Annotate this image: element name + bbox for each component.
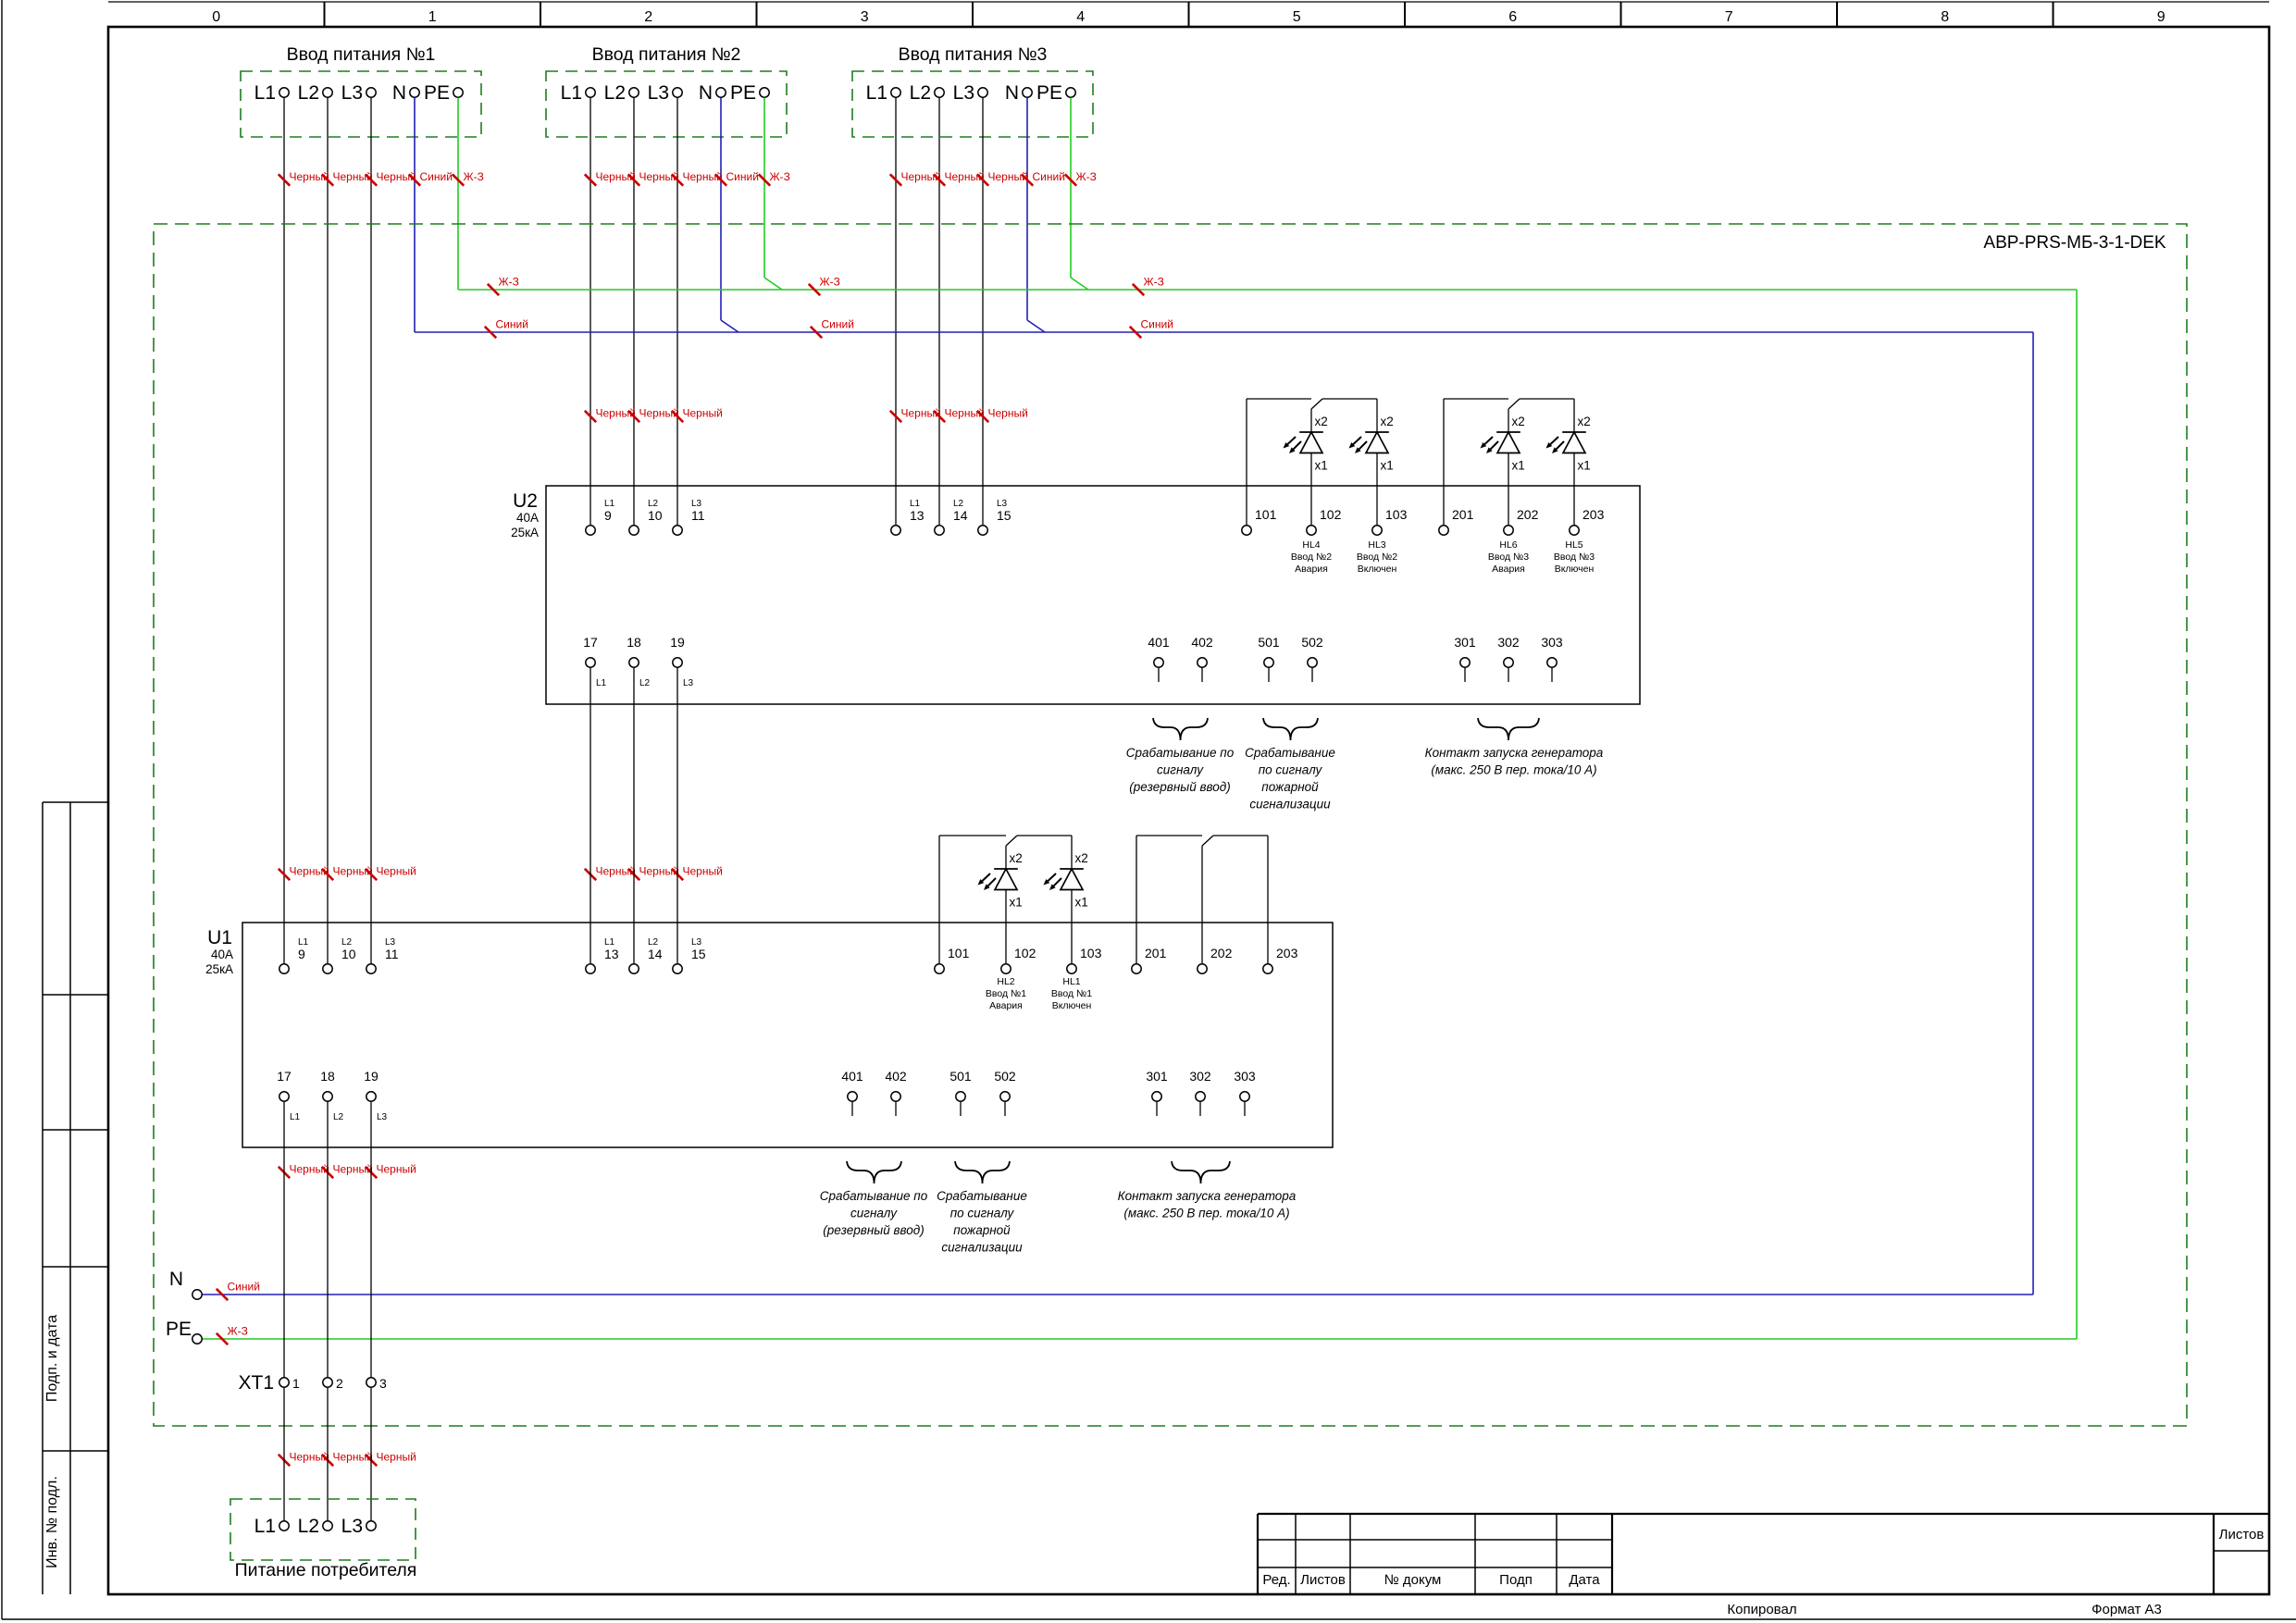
svg-text:14: 14 bbox=[648, 947, 663, 961]
U1 pin 19 (L3) output bbox=[364, 1069, 387, 1122]
svg-text:ХТ1: ХТ1 bbox=[238, 1372, 274, 1394]
brace U1 501-502 bbox=[955, 1161, 1010, 1183]
svg-text:x1: x1 bbox=[1512, 459, 1525, 473]
U2 pin 301 bbox=[1454, 635, 1476, 682]
svg-text:L2: L2 bbox=[298, 82, 319, 104]
HL1 caption bbox=[1051, 976, 1092, 1011]
wire colour labels row C (U1 inputs) bbox=[279, 865, 723, 881]
svg-text:Ввод №3: Ввод №3 bbox=[1554, 551, 1595, 563]
svg-text:4: 4 bbox=[1076, 9, 1085, 25]
wire x1 HL5 → pin 203 bbox=[1573, 453, 1575, 525]
svg-text:L2: L2 bbox=[333, 1112, 344, 1122]
svg-text:1: 1 bbox=[428, 9, 437, 25]
PE bus right vertical (green) bbox=[2076, 290, 2078, 1339]
svg-text:L3: L3 bbox=[953, 82, 974, 104]
svg-text:L3: L3 bbox=[341, 82, 363, 104]
svg-text:(резервный ввод): (резервный ввод) bbox=[1129, 780, 1230, 794]
wire N Ввод№1 drop bbox=[414, 98, 416, 333]
svg-text:Формат А3: Формат А3 bbox=[2091, 1602, 2162, 1617]
svg-text:501: 501 bbox=[1258, 635, 1280, 650]
wire colour labels row D (U1 outputs) bbox=[279, 1163, 416, 1179]
svg-text:18: 18 bbox=[320, 1069, 335, 1084]
svg-text:L1: L1 bbox=[254, 82, 276, 104]
svg-text:14: 14 bbox=[953, 508, 968, 523]
svg-text:18: 18 bbox=[627, 635, 641, 650]
wire L2 Ввод№1 → U1 pin 10 bbox=[327, 98, 329, 964]
U1 pin 201 bbox=[1132, 946, 1167, 973]
svg-text:13: 13 bbox=[910, 508, 925, 523]
wire PE Ввод№1 drop bbox=[457, 98, 459, 291]
svg-text:103: 103 bbox=[1080, 946, 1102, 960]
U1 pin 9 (L1) bbox=[279, 937, 309, 973]
svg-text:x2: x2 bbox=[1381, 415, 1394, 428]
svg-text:301: 301 bbox=[1146, 1069, 1168, 1084]
U1 pin 103 bbox=[1067, 946, 1102, 973]
svg-text:Срабатывание по: Срабатывание по bbox=[1126, 746, 1235, 760]
label Ж-З at PE output bbox=[217, 1325, 248, 1345]
wire L1 Ввод№1 → U1 pin 9 bbox=[283, 98, 285, 964]
terminal N (Ввод №2) bbox=[699, 82, 726, 104]
XT1 terminal 2 bbox=[323, 1376, 343, 1391]
svg-text:Ж-З: Ж-З bbox=[770, 170, 790, 183]
terminal L1 (Ввод №1) bbox=[254, 82, 290, 104]
svg-text:402: 402 bbox=[1191, 635, 1213, 650]
svg-text:10: 10 bbox=[341, 947, 356, 961]
svg-text:Включен: Включен bbox=[1358, 564, 1397, 575]
wire x1 HL1 → pin 103 bbox=[1071, 890, 1073, 963]
HL2 pin labels x2/x1 bbox=[1010, 851, 1023, 910]
U2 pin 17 (L1) output bbox=[583, 635, 606, 688]
left strip row lines bbox=[43, 802, 108, 1451]
U2 pin 201 bbox=[1439, 507, 1474, 535]
U2 LED bar 101-102 bbox=[1247, 398, 1311, 400]
svg-text:HL6: HL6 bbox=[1499, 539, 1517, 551]
svg-text:Срабатывание: Срабатывание bbox=[1245, 746, 1335, 760]
brace U1 401-402 bbox=[847, 1161, 901, 1183]
PE bus bottom horizontal (green) bbox=[203, 1338, 2078, 1340]
svg-text:502: 502 bbox=[994, 1069, 1016, 1084]
N bus bottom horizontal (blue) bbox=[203, 1294, 2034, 1295]
terminal PE (Ввод №2) bbox=[730, 82, 769, 104]
svg-text:L2: L2 bbox=[910, 82, 931, 104]
sheet left trim line bbox=[1, 0, 3, 1619]
svg-text:Синий: Синий bbox=[1141, 318, 1173, 331]
svg-text:Питание потребителя: Питание потребителя bbox=[235, 1560, 417, 1580]
HL2 caption bbox=[986, 976, 1026, 1011]
wire L3 Ввод№1 → U1 pin 11 bbox=[370, 98, 372, 964]
svg-text:1: 1 bbox=[292, 1376, 300, 1391]
svg-text:3: 3 bbox=[379, 1376, 387, 1391]
U2 pin 102 bbox=[1307, 507, 1342, 535]
wire x1 HL3 → pin 103 bbox=[1376, 453, 1378, 525]
wire U2 pin19 → U1 pin 15 bbox=[676, 668, 678, 964]
caption U2 Срабатывание по сигналу пожарной сигнализации bbox=[1245, 746, 1335, 811]
U2 pin 9 (L1) bbox=[586, 499, 615, 535]
svg-text:L1: L1 bbox=[596, 678, 607, 688]
U2 pin 502 bbox=[1301, 635, 1323, 682]
svg-text:Черный: Черный bbox=[683, 407, 723, 420]
U1 pin 502 bbox=[994, 1069, 1016, 1116]
ruler column ticks bbox=[325, 2, 2054, 27]
svg-text:11: 11 bbox=[691, 508, 705, 523]
svg-text:HL2: HL2 bbox=[997, 976, 1014, 987]
terminal PE (Ввод №3) bbox=[1036, 82, 1075, 104]
svg-text:Подп. и дата: Подп. и дата bbox=[44, 1315, 60, 1402]
svg-text:201: 201 bbox=[1452, 507, 1474, 522]
wire colour labels row E (XT1 outputs) bbox=[279, 1451, 416, 1467]
svg-text:Включен: Включен bbox=[1052, 1000, 1092, 1011]
svg-text:N: N bbox=[392, 82, 406, 104]
U1 pin 11 (L3) bbox=[366, 937, 399, 973]
U2 pin 101 bbox=[1242, 507, 1277, 535]
U1 pin 15 (L3) bbox=[673, 937, 706, 973]
svg-text:Ввод №2: Ввод №2 bbox=[1291, 551, 1332, 563]
wire x2 HL2 bbox=[1005, 846, 1007, 869]
svg-text:Дата: Дата bbox=[1569, 1572, 1600, 1588]
svg-text:Включен: Включен bbox=[1555, 564, 1595, 575]
wire XT1:2 → consumer L2 bbox=[327, 1388, 329, 1521]
terminal L3 (Ввод №1) bbox=[341, 82, 377, 104]
terminal L2 (Ввод №2) bbox=[604, 82, 639, 104]
svg-text:x1: x1 bbox=[1010, 896, 1023, 910]
svg-text:9: 9 bbox=[298, 947, 305, 961]
svg-text:Ввод №1: Ввод №1 bbox=[986, 988, 1026, 999]
svg-text:Срабатывание по: Срабатывание по bbox=[820, 1189, 928, 1203]
U2 pin 11 (L3) bbox=[673, 499, 705, 535]
U2 pin 203 bbox=[1570, 507, 1605, 535]
caption U1 Контакт запуска генератора bbox=[1118, 1189, 1297, 1220]
svg-text:L1: L1 bbox=[290, 1112, 301, 1122]
caption U2 Контакт запуска генератора bbox=[1425, 746, 1604, 777]
N bus right vertical (blue) bbox=[2032, 332, 2034, 1295]
wire x1 HL4 → pin 102 bbox=[1310, 453, 1312, 525]
svg-text:(макс. 250 В пер. тока/10 А): (макс. 250 В пер. тока/10 А) bbox=[1123, 1207, 1289, 1220]
svg-text:17: 17 bbox=[277, 1069, 292, 1084]
svg-text:0: 0 bbox=[212, 9, 220, 25]
svg-text:Синий: Синий bbox=[496, 318, 528, 331]
svg-text:x1: x1 bbox=[1381, 459, 1394, 473]
svg-text:3: 3 bbox=[861, 9, 869, 25]
wire x1 HL6 → pin 202 bbox=[1508, 453, 1509, 525]
input box Ввод питания №3 bbox=[852, 71, 1093, 137]
HL5 pin labels x2/x1 bbox=[1578, 415, 1591, 473]
svg-text:2: 2 bbox=[644, 9, 652, 25]
wire N Ввод№3 drop bbox=[1026, 98, 1028, 321]
terminal L1 (Ввод №2) bbox=[561, 82, 596, 104]
svg-text:x1: x1 bbox=[1578, 459, 1591, 473]
U2 pin101 riser wire bbox=[1246, 399, 1247, 525]
U2 contact bar 202-203 bbox=[1520, 398, 1574, 400]
U2 pin 202 bbox=[1504, 507, 1539, 535]
svg-text:L2: L2 bbox=[639, 678, 651, 688]
svg-text:502: 502 bbox=[1301, 635, 1323, 650]
U2 pin 401 bbox=[1148, 635, 1170, 682]
U1 pin 102 bbox=[1001, 946, 1036, 973]
svg-text:L1: L1 bbox=[866, 82, 887, 104]
svg-text:Ввод №2: Ввод №2 bbox=[1357, 551, 1397, 563]
U2 designator labels bbox=[511, 490, 539, 539]
junction N Ввод№2 → bus bbox=[721, 320, 738, 332]
svg-text:Ввод питания №1: Ввод питания №1 bbox=[287, 44, 436, 65]
N bus labels Синий bbox=[485, 318, 1173, 339]
svg-text:АВР-PRS-МБ-3-1-DEK: АВР-PRS-МБ-3-1-DEK bbox=[1983, 233, 2166, 253]
svg-text:402: 402 bbox=[885, 1069, 907, 1084]
svg-text:L3: L3 bbox=[341, 1516, 363, 1537]
XT1 terminal 1 bbox=[279, 1376, 300, 1391]
svg-text:Ж-З: Ж-З bbox=[499, 276, 519, 289]
wire U2 pin18 → U1 pin 14 bbox=[633, 668, 635, 964]
svg-text:PE: PE bbox=[166, 1319, 192, 1340]
HL1 pin labels x2/x1 bbox=[1075, 851, 1088, 910]
svg-text:202: 202 bbox=[1210, 946, 1233, 960]
svg-text:Ж-З: Ж-З bbox=[820, 276, 840, 289]
svg-text:Ж-З: Ж-З bbox=[1144, 276, 1164, 289]
PE bus horizontal (green) bbox=[458, 289, 2077, 291]
svg-text:сигналу: сигналу bbox=[1157, 763, 1204, 777]
svg-text:102: 102 bbox=[1320, 507, 1342, 522]
svg-text:301: 301 bbox=[1454, 635, 1476, 650]
junction N Ввод№3 → bus bbox=[1027, 320, 1045, 332]
svg-text:Авария: Авария bbox=[1295, 564, 1328, 575]
svg-text:9: 9 bbox=[2157, 9, 2166, 25]
svg-text:HL3: HL3 bbox=[1368, 539, 1385, 551]
PE bus labels Ж-З bbox=[488, 276, 1164, 296]
svg-text:401: 401 bbox=[841, 1069, 863, 1084]
svg-text:Срабатывание: Срабатывание bbox=[937, 1189, 1027, 1203]
HL6 pin labels x2/x1 bbox=[1512, 415, 1525, 473]
brace U2 301-303 bbox=[1478, 718, 1539, 740]
svg-text:N: N bbox=[699, 82, 713, 104]
svg-text:Ввод питания №2: Ввод питания №2 bbox=[592, 44, 741, 65]
svg-text:11: 11 bbox=[385, 947, 399, 961]
svg-text:пожарной: пожарной bbox=[1261, 780, 1319, 794]
svg-text:Листов: Листов bbox=[2219, 1527, 2265, 1542]
svg-text:Черный: Черный bbox=[377, 865, 416, 878]
consumer box Питание потребителя bbox=[230, 1499, 416, 1560]
svg-text:6: 6 bbox=[1508, 9, 1517, 25]
ATS switch U2 body bbox=[546, 486, 1640, 704]
svg-text:PE: PE bbox=[730, 82, 756, 104]
svg-text:Ввод №3: Ввод №3 bbox=[1488, 551, 1529, 563]
svg-text:Ввод №1: Ввод №1 bbox=[1051, 988, 1092, 999]
wire XT1:3 → consumer L3 bbox=[370, 1388, 372, 1521]
svg-text:15: 15 bbox=[997, 508, 1011, 523]
svg-text:Черный: Черный bbox=[377, 1163, 416, 1176]
LED HL3 bbox=[1349, 432, 1389, 453]
title block outline bbox=[1258, 1514, 2269, 1594]
svg-text:N: N bbox=[169, 1269, 183, 1290]
U2 contact bar 201-202 bbox=[1444, 398, 1508, 400]
brace U1 301-303 bbox=[1172, 1161, 1230, 1183]
svg-text:303: 303 bbox=[1541, 635, 1563, 650]
svg-text:x2: x2 bbox=[1075, 851, 1088, 865]
svg-text:19: 19 bbox=[364, 1069, 379, 1084]
svg-text:сигнализации: сигнализации bbox=[941, 1241, 1023, 1255]
wire XT1:1 → consumer L1 bbox=[283, 1388, 285, 1521]
svg-text:N: N bbox=[1005, 82, 1019, 104]
svg-text:x2: x2 bbox=[1512, 415, 1525, 428]
junction PE Ввод№3 → bus bbox=[1071, 278, 1088, 290]
svg-text:203: 203 bbox=[1582, 507, 1605, 522]
wire L2 Ввод№3 → U2 pin 14 bbox=[938, 98, 940, 526]
sheet bottom trim line bbox=[2, 1618, 2296, 1620]
ruler column numbers 0-9 bbox=[212, 9, 2166, 25]
svg-text:302: 302 bbox=[1497, 635, 1520, 650]
svg-text:5: 5 bbox=[1293, 9, 1301, 25]
svg-text:Ввод питания №3: Ввод питания №3 bbox=[899, 44, 1048, 65]
svg-text:(резервный ввод): (резервный ввод) bbox=[823, 1223, 924, 1237]
terminal N (Ввод №1) bbox=[392, 82, 419, 104]
wire U1 pin19 → XT1:3 bbox=[370, 1102, 372, 1378]
title block verticals bbox=[1296, 1514, 2214, 1594]
node PE output bbox=[166, 1319, 202, 1344]
svg-text:x1: x1 bbox=[1075, 896, 1088, 910]
U1 pin 10 (L2) bbox=[323, 937, 356, 973]
U2 pin 103 bbox=[1372, 507, 1408, 535]
svg-text:Синий: Синий bbox=[726, 170, 759, 183]
svg-text:PE: PE bbox=[424, 82, 450, 104]
svg-text:203: 203 bbox=[1276, 946, 1298, 960]
U1 pin 302 bbox=[1189, 1069, 1211, 1116]
svg-text:Черный: Черный bbox=[988, 170, 1028, 183]
wire colour labels row B (U2 inputs) bbox=[585, 407, 1028, 423]
U2 pin 15 (L3) bbox=[978, 499, 1011, 535]
U1 pin 402 bbox=[885, 1069, 907, 1116]
U1 contact diagonal at 202 bbox=[1202, 836, 1213, 846]
U1 pin 101 bbox=[935, 946, 970, 973]
U1 contact bar 202-203 bbox=[1213, 835, 1268, 836]
wire L2 Ввод№2 → U2 pin 10 bbox=[633, 98, 635, 526]
svg-text:пожарной: пожарной bbox=[953, 1223, 1011, 1237]
LED HL5 bbox=[1546, 432, 1586, 453]
brace U2 501-502 bbox=[1263, 718, 1318, 740]
U2 LED bar 102-103 bbox=[1322, 398, 1377, 400]
svg-text:HL5: HL5 bbox=[1565, 539, 1582, 551]
title block labels bbox=[1262, 1572, 1600, 1588]
svg-text:103: 103 bbox=[1385, 507, 1408, 522]
U1 pin 202 bbox=[1198, 946, 1233, 973]
svg-text:Синий: Синий bbox=[822, 318, 854, 331]
U1 pin 13 (L1) bbox=[586, 937, 619, 973]
HL4 pin labels x2/x1 bbox=[1315, 415, 1328, 473]
svg-text:25кА: 25кА bbox=[205, 962, 233, 976]
U1 pin 203 bbox=[1263, 946, 1298, 973]
wire x2 HL1 bbox=[1071, 836, 1073, 869]
U1 LED bar 102-103 bbox=[1017, 835, 1072, 836]
U1 pin 18 (L2) output bbox=[320, 1069, 343, 1122]
svg-text:Авария: Авария bbox=[989, 1000, 1023, 1011]
svg-text:302: 302 bbox=[1189, 1069, 1211, 1084]
svg-text:2: 2 bbox=[336, 1376, 343, 1391]
U2 contact diagonal at 202 bbox=[1508, 399, 1520, 409]
caption U1 Срабатывание по сигналу (резервный ввод) bbox=[820, 1189, 928, 1237]
junction PE Ввод№2 → bus bbox=[764, 278, 782, 290]
U2 pin 18 (L2) output bbox=[627, 635, 650, 688]
svg-text:102: 102 bbox=[1014, 946, 1036, 960]
caption U1 Срабатывание по сигналу пожарной сигнализации bbox=[937, 1189, 1027, 1255]
U1 pin 301 bbox=[1146, 1069, 1168, 1116]
HL3 pin labels x2/x1 bbox=[1381, 415, 1394, 473]
U1 designator labels bbox=[205, 927, 233, 976]
node N output bbox=[169, 1269, 202, 1299]
terminal L1 (Ввод №3) bbox=[866, 82, 901, 104]
wire U1 pin18 → XT1:2 bbox=[327, 1102, 329, 1378]
brace U2 401-402 bbox=[1153, 718, 1208, 740]
svg-text:PE: PE bbox=[1036, 82, 1062, 104]
wire L1 Ввод№3 → U2 pin 13 bbox=[895, 98, 897, 526]
U1 contact diagonal at 102 bbox=[1006, 836, 1017, 846]
svg-text:Черный: Черный bbox=[988, 407, 1028, 420]
svg-text:Ж-З: Ж-З bbox=[464, 170, 484, 183]
terminal N (Ввод №3) bbox=[1005, 82, 1032, 104]
svg-text:15: 15 bbox=[691, 947, 706, 961]
wire PE Ввод№3 drop bbox=[1070, 98, 1072, 279]
svg-text:Ж-З: Ж-З bbox=[1076, 170, 1097, 183]
input box Ввод питания №2 bbox=[546, 71, 787, 137]
U2 pin 501 bbox=[1258, 635, 1280, 682]
U1 pin 303 bbox=[1234, 1069, 1256, 1116]
input box Ввод питания №1 bbox=[241, 71, 481, 137]
svg-text:Контакт запуска генератора: Контакт запуска генератора bbox=[1425, 746, 1604, 760]
svg-text:(макс. 250 В пер. тока/10 А): (макс. 250 В пер. тока/10 А) bbox=[1431, 763, 1596, 777]
left strip columns bbox=[43, 802, 70, 1594]
HL3 caption bbox=[1357, 539, 1397, 575]
wire L3 Ввод№3 → U2 pin 15 bbox=[982, 98, 984, 526]
U1 pin 401 bbox=[841, 1069, 863, 1116]
svg-text:8: 8 bbox=[1941, 9, 1949, 25]
svg-text:Синий: Синий bbox=[1033, 170, 1065, 183]
svg-text:HL4: HL4 bbox=[1302, 539, 1320, 551]
svg-text:Черный: Черный bbox=[377, 1451, 416, 1464]
U2 pin 19 (L3) output bbox=[670, 635, 693, 688]
wire colour labels row A (inputs) bbox=[279, 170, 1097, 186]
U2 pin 13 (L1) bbox=[891, 499, 925, 535]
U1 pin201 riser wire bbox=[1136, 836, 1137, 963]
svg-text:№ докум: № докум bbox=[1384, 1572, 1442, 1588]
wire L3 Ввод№2 → U2 pin 11 bbox=[676, 98, 678, 526]
caption U2 Срабатывание по сигналу (резервный ввод) bbox=[1126, 746, 1235, 794]
U2 pin 302 bbox=[1497, 635, 1520, 682]
device boundary АВР-PRS-МБ-3-1-DEK bbox=[154, 224, 2187, 1426]
svg-text:Контакт запуска генератора: Контакт запуска генератора bbox=[1118, 1189, 1297, 1203]
svg-text:Копировал: Копировал bbox=[1727, 1602, 1796, 1617]
wire x2 HL3 bbox=[1376, 399, 1378, 432]
svg-text:U1: U1 bbox=[207, 927, 232, 948]
U1 pin101 riser wire bbox=[938, 836, 940, 963]
wire PE Ввод№2 drop bbox=[763, 98, 765, 279]
LED HL6 bbox=[1481, 432, 1520, 453]
terminal L2 (Ввод №3) bbox=[910, 82, 945, 104]
U2 pin201 riser wire bbox=[1443, 399, 1445, 525]
svg-text:40А: 40А bbox=[211, 948, 233, 961]
wire L1 Ввод№2 → U2 pin 9 bbox=[590, 98, 591, 526]
HL5 caption bbox=[1554, 539, 1595, 575]
svg-text:U2: U2 bbox=[513, 490, 538, 512]
svg-text:101: 101 bbox=[948, 946, 970, 960]
terminal L3 (Ввод №3) bbox=[953, 82, 988, 104]
wire U1 pin17 → XT1:1 bbox=[283, 1102, 285, 1378]
title block rows bbox=[1258, 1540, 2269, 1567]
LED HL2 bbox=[978, 869, 1018, 890]
terminal L3 (Ввод №2) bbox=[648, 82, 683, 104]
svg-text:13: 13 bbox=[604, 947, 619, 961]
label Синий at N output bbox=[217, 1281, 260, 1301]
svg-text:101: 101 bbox=[1255, 507, 1277, 522]
svg-text:L1: L1 bbox=[254, 1516, 276, 1537]
svg-text:7: 7 bbox=[1725, 9, 1733, 25]
wire x2 HL6 bbox=[1508, 409, 1509, 432]
svg-text:x1: x1 bbox=[1315, 459, 1328, 473]
